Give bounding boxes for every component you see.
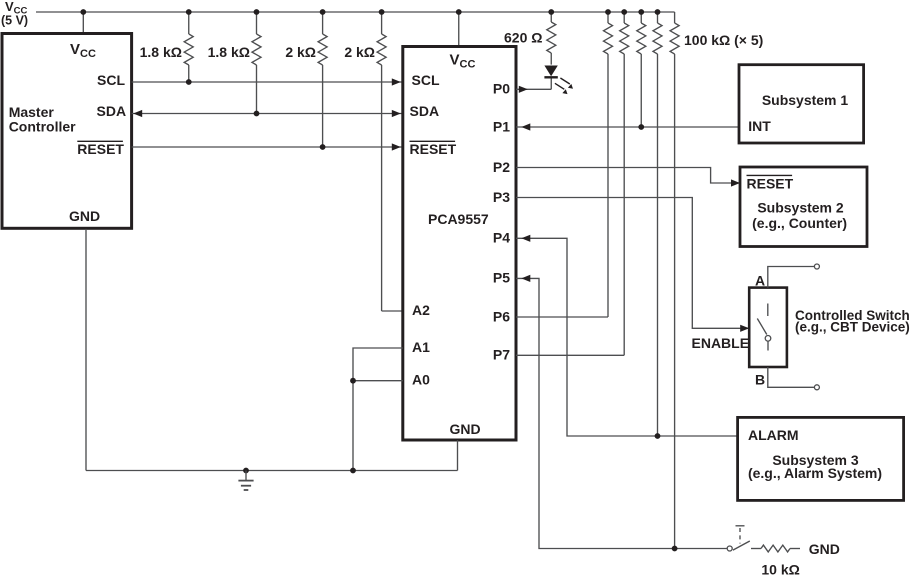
Master Controller U1 box — [2, 34, 132, 229]
pin arrow into P5 — [521, 275, 530, 282]
wire VCC power rail — [36, 11, 675, 13]
junction R10 pull-up on P5 net — [672, 546, 678, 552]
wire ALARM net (P4 to Subsystem 3) — [516, 238, 738, 436]
terminal A open circle — [814, 264, 819, 269]
junction R3 bottom on RESET — [320, 144, 326, 150]
Subsystem 2 pin RESET label (active low) — [747, 175, 794, 191]
resistor R9 100 kOhm pull-up — [653, 12, 662, 436]
svg-text:1.8 kΩ: 1.8 kΩ — [208, 44, 250, 60]
wire SDA bus (master to PCA9557) — [132, 113, 403, 115]
svg-text:1.8 kΩ: 1.8 kΩ — [140, 44, 182, 60]
svg-text:B: B — [755, 371, 765, 387]
junction R2 bottom on SDA — [254, 111, 260, 117]
svg-text:620 Ω: 620 Ω — [504, 30, 542, 46]
controlled switch caption — [795, 308, 910, 335]
svg-text:P7: P7 — [493, 347, 510, 363]
net VCC label (5 V) — [1, 0, 28, 28]
svg-text:GND: GND — [69, 208, 100, 224]
wire INT net (Subsystem 1 to P1) — [516, 126, 739, 128]
resistor R6 100 kOhm pull-up — [604, 12, 613, 317]
junction VCC rail / PCA9557 VCC — [456, 9, 462, 15]
svg-text:100 kΩ (× 5): 100 kΩ (× 5) — [684, 32, 763, 48]
junction R3 top on VCC rail — [320, 9, 326, 15]
resistor R8 100 kOhm pull-up — [637, 12, 646, 127]
Subsystem 2 label — [752, 199, 847, 231]
resistor R5 620 Ohm (LED series) — [547, 12, 556, 65]
junction R9 pull-up on ALARM net — [655, 433, 661, 439]
svg-text:GND: GND — [450, 421, 481, 437]
svg-text:(e.g., CBT Device): (e.g., CBT Device) — [795, 320, 910, 335]
svg-text:Master: Master — [9, 104, 55, 120]
svg-text:P0: P0 — [493, 81, 510, 97]
junction A0 / A1 ground tie — [350, 378, 356, 384]
svg-text:(e.g., Counter): (e.g., Counter) — [752, 215, 847, 231]
svg-text:P5: P5 — [493, 270, 510, 286]
push-button switch S2 — [727, 526, 750, 551]
svg-text:2 kΩ: 2 kΩ — [285, 44, 316, 60]
pin arrow into PCA9557 SDA — [392, 110, 401, 117]
svg-text:A1: A1 — [412, 339, 430, 355]
junction R5 top on VCC rail — [548, 9, 554, 15]
junction R4 top on VCC rail — [379, 9, 385, 15]
svg-text:P2: P2 — [493, 159, 510, 175]
junction R1 top on VCC rail — [186, 9, 192, 15]
svg-text:A: A — [755, 272, 765, 288]
svg-text:PCA9557: PCA9557 — [428, 211, 489, 227]
junction ground bus / A0-A1 tie — [350, 468, 356, 474]
resistor R1 1.8 kOhm (SCL pull-up) — [184, 12, 193, 82]
junction R8 pull-up on INT net — [638, 124, 644, 130]
svg-text:A2: A2 — [412, 302, 430, 318]
svg-text:Controller: Controller — [9, 119, 76, 135]
svg-text:SDA: SDA — [410, 103, 440, 119]
resistor R3 2 kOhm (RESET pull-up) — [318, 12, 327, 147]
LED D1 light emission arrows — [555, 78, 573, 94]
Master Controller U1 name label — [9, 104, 76, 135]
Subsystem 3 box — [738, 417, 904, 500]
LED D1 (anode top, cathode bottom) — [544, 66, 557, 90]
svg-text:ENABLE: ENABLE — [692, 335, 750, 351]
svg-text:P6: P6 — [493, 308, 510, 324]
svg-text:P3: P3 — [493, 189, 510, 205]
resistor R4 2 kOhm (A2 pull-up) — [377, 12, 386, 311]
junction R7 top on VCC rail — [621, 9, 627, 15]
switch S1 internal contacts — [757, 304, 771, 351]
Subsystem 3 label — [748, 452, 882, 481]
pin arrow out of P0 — [519, 86, 528, 93]
Subsystem 2 box — [740, 167, 867, 247]
op IC U2 PCA9557 box — [403, 47, 516, 441]
svg-text:10 kΩ: 10 kΩ — [761, 562, 799, 576]
svg-text:INT: INT — [748, 118, 771, 134]
wire VCC to PCA9557 — [458, 12, 460, 47]
wire switch terminal B — [768, 367, 815, 387]
svg-text:2 kΩ: 2 kΩ — [344, 44, 375, 60]
svg-text:SDA: SDA — [97, 103, 127, 119]
svg-text:ALARM: ALARM — [748, 427, 799, 443]
wire RESET net (master to PCA9557) — [132, 146, 403, 148]
resistor R7 100 kOhm pull-up — [620, 12, 629, 355]
pin arrow into master SDA — [133, 110, 142, 117]
junction VCC rail / master VCC — [80, 9, 86, 15]
wire P6 to pull-up R6 — [516, 316, 608, 318]
Subsystem 1 box — [739, 65, 864, 143]
junction R9 top on VCC rail — [655, 9, 661, 15]
resistor R10 100 kOhm pull-up — [670, 12, 679, 549]
wire P2 to Subsystem 2 RESET — [516, 168, 740, 184]
wire switch terminal A — [768, 267, 815, 288]
pin arrow into PCA9557 SCL — [392, 78, 401, 85]
svg-text:(5 V): (5 V) — [1, 14, 28, 28]
controlled switch S1 box — [749, 288, 787, 367]
svg-text:SCL: SCL — [412, 72, 440, 88]
svg-text:P4: P4 — [493, 230, 510, 246]
wire P5 to push-button — [516, 278, 727, 548]
svg-text:Subsystem 2: Subsystem 2 — [757, 199, 844, 215]
wire SCL bus (master to PCA9557) — [132, 81, 403, 83]
PCA9557 pin RESET label (active low) — [410, 141, 457, 157]
svg-text:A0: A0 — [412, 372, 430, 388]
wire ENABLE net (P3 to switch) — [516, 198, 749, 329]
svg-text:GND: GND — [809, 541, 840, 557]
pin arrow into Subsystem 2 RESET — [731, 179, 740, 186]
pin arrow into switch ENABLE — [740, 325, 749, 332]
svg-text:RESET: RESET — [410, 141, 457, 157]
junction R1 bottom on SCL — [186, 79, 192, 85]
svg-text:Subsystem 1: Subsystem 1 — [762, 92, 849, 108]
svg-text:RESET: RESET — [77, 141, 124, 157]
wire P7 to pull-up R7 — [516, 354, 624, 356]
junction R8 top on VCC rail — [638, 9, 644, 15]
wire VCC to Master Controller — [82, 12, 84, 34]
wire A2 (R4 to PCA9557 A2) — [382, 310, 403, 312]
pin arrow into P1 — [521, 123, 530, 130]
Master Controller U1 pin RESET label (active low) — [77, 141, 124, 157]
svg-text:(e.g., Alarm System): (e.g., Alarm System) — [748, 465, 882, 481]
pin arrow into P4 — [521, 235, 530, 242]
junction R2 top on VCC rail — [254, 9, 260, 15]
wire A1 to ground net — [353, 348, 403, 471]
resistor R2 1.8 kOhm (SDA pull-up) — [252, 12, 261, 114]
wire ground bus — [86, 470, 458, 472]
wire PCA9557 GND down — [457, 440, 459, 470]
ground earth symbol — [238, 471, 253, 491]
wire A0 to ground net — [353, 380, 403, 382]
svg-text:RESET: RESET — [747, 175, 794, 191]
svg-text:SCL: SCL — [97, 72, 125, 88]
svg-text:P1: P1 — [493, 118, 510, 134]
wire master GND down — [85, 229, 87, 471]
resistor R11 10 kOhm — [751, 545, 800, 552]
junction R6 top on VCC rail — [605, 9, 611, 15]
junction ground bus / earth symbol — [243, 468, 249, 474]
terminal B open circle — [814, 385, 819, 390]
pin arrow into PCA9557 RESET — [392, 143, 401, 150]
wire P0 to LED — [516, 88, 551, 90]
